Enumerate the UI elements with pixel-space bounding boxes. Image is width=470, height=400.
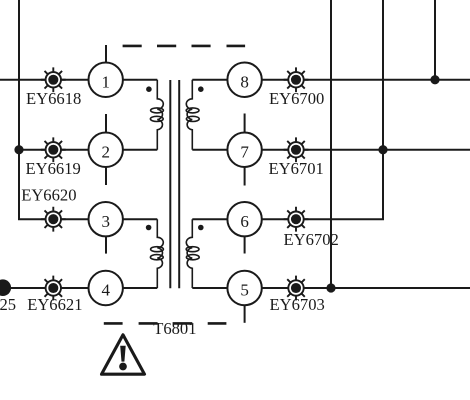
svg-text:3: 3 xyxy=(101,212,110,231)
svg-text:EY6620: EY6620 xyxy=(21,186,76,205)
svg-text:EY6621: EY6621 xyxy=(27,295,82,314)
svg-text:6: 6 xyxy=(240,212,249,231)
svg-text:5: 5 xyxy=(240,281,249,300)
svg-text:25: 25 xyxy=(0,295,16,314)
svg-text:4: 4 xyxy=(101,281,110,300)
svg-text:EY6700: EY6700 xyxy=(269,89,324,108)
svg-text:2: 2 xyxy=(101,143,110,162)
svg-text:1: 1 xyxy=(101,73,110,92)
svg-text:EY6619: EY6619 xyxy=(26,159,81,178)
svg-text:EY6702: EY6702 xyxy=(284,230,339,249)
svg-text:EY6703: EY6703 xyxy=(270,295,325,314)
svg-text:EY6618: EY6618 xyxy=(26,89,81,108)
svg-text:7: 7 xyxy=(240,143,249,162)
svg-text:EY6701: EY6701 xyxy=(269,159,324,178)
svg-text:8: 8 xyxy=(240,73,249,92)
svg-text:T6801: T6801 xyxy=(153,319,196,338)
